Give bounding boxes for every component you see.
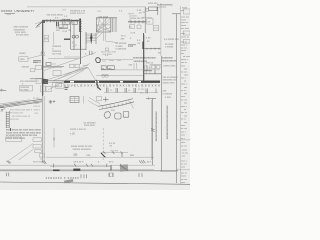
toilet fixtures: [72, 35, 75, 38]
short vertical x83.4: [82, 96, 84, 104]
parking stall boxes along property line: [33, 138, 41, 142]
svg-text:xxxxxxxxxxxxxxxxxxxxxxx: xxxxxxxxxxxxxxxxxxxxxxx: [155, 112, 158, 143]
right top double wall: [128, 20, 146, 22]
arrow tick top of notes: [10, 128, 12, 131]
crosswalk hatched strip: [6, 111, 9, 128]
title underline: [5, 13, 16, 15]
bottom sheet border: [0, 182, 190, 184]
svg-text:xxxxx x xxx xx: xxxxx x xxx xx: [70, 128, 87, 131]
room bottom wall y49: [71, 48, 86, 50]
bike rack circles: [102, 74, 109, 76]
planter hexagon: [104, 112, 111, 119]
svg-text:xxxxx xx: xxxxx xx: [181, 36, 190, 38]
hatch marks above dim line: [7, 160, 146, 164]
svg-text:xxxxxx: xxxxxx: [22, 66, 30, 69]
svg-text:xxxx x: xxxx x: [181, 106, 188, 108]
leader to wall: [35, 22, 42, 29]
left wall lower cluster: [30, 78, 44, 80]
survey marks: [49, 100, 52, 103]
svg-text:x xxxxxxx: x xxxxxxx: [116, 48, 127, 51]
svg-text:xx xxx: xx xxx: [181, 145, 188, 147]
shaft right walls: [111, 18, 113, 32]
window boxes left of wall: [35, 66, 41, 70]
svg-text:x 30: x 30: [70, 133, 75, 136]
svg-text:xxxx xxx xx: xxxx xxx xx: [131, 17, 144, 20]
svg-text:XNVELEVXXINVELEVXXXINVELEVXXXX: XNVELEVXXINVELEVXXXINVELEVXXXX: [64, 83, 160, 87]
svg-text:x xxx: x xxx: [165, 96, 171, 99]
svg-text:xxxxx xxxx xxxxx: xxxxx xxxx xxxxx: [6, 137, 26, 140]
small box right x153-159 y25-31: [153, 25, 159, 31]
svg-text:xx xxx: xx xxx: [181, 179, 188, 181]
svg-text:xxx xx: xxx xx: [181, 62, 188, 64]
long line y157: [46, 156, 154, 158]
svg-text:x xx: x xx: [63, 30, 68, 33]
fixtures below band left: [40, 86, 45, 92]
hash at x152 top y128: [151, 128, 155, 131]
ramp hatch parallelogram right: [120, 164, 128, 172]
window mullion ticks on top wall: [47, 19, 77, 22]
svg-text:xxxxx x: xxxxx x: [181, 59, 189, 61]
svg-text:x xx: x xx: [131, 32, 136, 35]
svg-text:xxxxx xxx x.x.: xxxxx xxx x.x.: [70, 12, 86, 15]
svg-text:xxxxxxxxxxxxxxxxxxxxxxxxxx: xxxxxxxxxxxxxxxxxxxxxxxxxx: [166, 106, 169, 140]
building top wall: [42, 19, 81, 21]
interior wall x86: [85, 32, 87, 50]
wall going right y66.7: [43, 66, 64, 68]
svg-text:xxxx xxxx: xxxx xxxx: [84, 124, 95, 127]
svg-text:xxx xx: xxx xx: [146, 61, 154, 64]
dashed layout line x103 y128-160: [102, 128, 104, 160]
small box upper right: [149, 7, 157, 11]
keynote boxes row x101-114 y65.8-69.3: [101, 66, 106, 70]
top wall over shaft: [96, 17, 117, 19]
diagonal leaders bottom-left: [10, 144, 34, 161]
shrub blob x96-100 y57-62: [96, 58, 101, 63]
svg-text:xx xxx: xx xxx: [181, 164, 188, 166]
inner right vertical: [175, 14, 177, 183]
svg-text:xx-x xx-x: xx-x xx-x: [74, 160, 85, 163]
wall stub x56-58 below top wall: [57, 22, 59, 27]
interior wall x70.7: [70, 22, 72, 50]
stair direction arrow (dark): [90, 37, 93, 43]
equipment box on walk x70-79 y96-103: [70, 97, 79, 103]
stair flight: [86, 33, 96, 44]
svg-text:xx-x: xx-x: [109, 160, 114, 163]
svg-text:x-x xxxxx xxx: x-x xxxxx xxx: [164, 38, 179, 41]
svg-text:xxxxxxxxxxx: xxxxxxxxxxx: [162, 60, 177, 63]
svg-text:xxx xx: xxx xx: [181, 112, 188, 114]
svg-text:xxx xxxx: xxx xxxx: [99, 15, 109, 18]
svg-text:xxx xxxx: xxx xxxx: [181, 28, 190, 30]
svg-text:xxx xx: xxx xx: [181, 41, 188, 43]
keynote boxes above diagonals: [70, 64, 75, 68]
planter rounded square: [115, 113, 121, 119]
svg-text:21-8: 21-8: [128, 45, 134, 48]
door swing arc on left wall: [41, 52, 45, 56]
line y170.8: [0, 170, 178, 172]
svg-text:XXOCXXX X.XXXXX: XXOCXXX X.XXXXX: [46, 177, 80, 180]
svg-text:x-x x-x: x-x x-x: [111, 149, 119, 152]
leader arrowhead dark left of toilet room: [64, 38, 70, 40]
svg-text:xxxx xx: xxxx xx: [181, 22, 189, 24]
svg-text:xxx xxxxx xxxx xx: xxx xxxxx xxxx xx: [12, 116, 31, 118]
svg-text:xxxxxxxx: xxxxxxxx: [162, 56, 173, 59]
svg-text:xxxx x: xxxx x: [34, 110, 41, 112]
curved walkway: [98, 99, 133, 107]
box with text x55-64 y83-88: [56, 84, 65, 89]
curb marks dark: [0, 107, 5, 110]
interior wall x74: [73, 22, 75, 51]
thin interior line x53.5: [53, 32, 55, 45]
bottom-left small line: [0, 90, 6, 92]
svg-text:xxxxxx xxxxxxxx: xxxxxx xxxxxxxx: [73, 148, 92, 151]
door boxes on left wall y35-42: [44, 35, 49, 38]
column ticks below band: [107, 88, 157, 94]
svg-text:xx xxx: xx xxx: [138, 89, 145, 91]
svg-text:xx-x x-xx: xx-x x-xx: [33, 160, 44, 163]
right wing walls: [144, 48, 161, 50]
svg-text:xxxx xxx: xxxx xxx: [181, 17, 190, 19]
dark segments on line: [53, 169, 60, 171]
right wall of building: [144, 7, 146, 33]
second box right: [72, 21, 78, 25]
faint arc left of planters: [128, 101, 134, 109]
x-braced shaft box with fan lines: [96, 18, 111, 32]
svg-text:xxxx xxxx xxxx xxxx x: xxxx xxxx xxxx xxxx x: [10, 110, 33, 112]
svg-text:xxxx: xxxx: [20, 58, 26, 61]
walkway hatch ticks: [102, 101, 131, 109]
svg-text:xxxxx xxxx: xxxxx xxxx: [163, 64, 176, 67]
svg-text:xxx xxxxx: xxx xxxxx: [103, 54, 114, 56]
svg-text:x xxxxxx: x xxxxxx: [163, 92, 173, 95]
svg-text:xx-x: xx-x: [147, 160, 152, 163]
svg-text:xxxx xxxx xxx: xxxx xxxx xxx: [9, 113, 24, 115]
svg-text:xxxxxxxx: xxxxxxxx: [157, 7, 167, 9]
property line vertical x42.8 y96-163: [42, 96, 44, 163]
svg-text:xx xxxx: xx xxxx: [20, 89, 29, 92]
south dark wall band: [64, 80, 160, 82]
dark planting blob left of band: [96, 80, 101, 90]
svg-text:xx xxx: xx xxx: [181, 99, 188, 101]
right margin column border: [180, 6, 182, 184]
planter square: [123, 111, 129, 117]
svg-text:xxxxx xxxx: xxxxx xxxx: [163, 81, 176, 84]
svg-text:xxxx x: xxxx x: [181, 161, 188, 163]
svg-text:xx xxx: xx xxx: [181, 128, 188, 130]
dimension line y152.5 with ticks: [101, 152, 129, 154]
svg-text:xxxxxxx: xxxxxxx: [52, 45, 62, 48]
street slanted lines lower-left: [0, 99, 42, 108]
upper right room marks y8-19 x128-146: [130, 25, 142, 29]
svg-text:xxx xx: xxx xx: [34, 106, 41, 108]
svg-text:xxx xx: xxx xx: [181, 172, 188, 174]
marks cluster x58-70 y24-29: [59, 25, 63, 27]
svg-text:xx xxxx: xx xxxx: [183, 56, 190, 58]
svg-text:xxxxx: xxxxx: [19, 52, 26, 55]
svg-text:xx xxx: xx xxx: [182, 153, 189, 155]
top boundary line: [27, 6, 146, 8]
sidewalk line x152.5 with survey cross: [152, 99, 154, 166]
svg-text:xx xxx: xx xxx: [33, 98, 40, 100]
vertical line x161.5: [160, 3, 162, 56]
right wing fixtures y64-74: [147, 65, 151, 74]
right margin column content: [160, 9, 191, 184]
ticks below line: [6, 173, 142, 178]
svg-text:OXXXX UNIVERSITY: OXXXX UNIVERSITY: [1, 9, 35, 13]
svg-text:xxx xxxx xxxxx: xxx xxxx xxxxx: [47, 13, 64, 16]
survey cross x105-108 y97-101: [103, 97, 109, 102]
box room upper x62-70: [63, 19, 70, 24]
svg-text:x xxxxx: x xxxxx: [165, 46, 174, 49]
svg-text:xxxx xxx: xxxx xxx: [10, 119, 20, 121]
faint interior verticals lower: [64, 50, 80, 64]
interior hatched wall x80.5: [80, 19, 82, 65]
corner column: [42, 20, 45, 23]
svg-text:xx xxx xxxx: xx xxx xxxx: [16, 34, 29, 37]
svg-text:xxxx x: xxxx x: [181, 45, 188, 47]
dimension line y165.2: [0, 164, 155, 166]
ramp hatch parallelogram left: [64, 179, 73, 183]
svg-text:xx x xxx: xx x xxx: [52, 53, 62, 56]
diagonal leader lines center: [46, 67, 96, 81]
svg-text:xxxx x: xxxx x: [181, 83, 188, 85]
building left wall: [42, 20, 44, 96]
svg-text:xx xxx: xx xxx: [181, 71, 188, 73]
svg-text:xx xxx: xx xxx: [181, 47, 188, 49]
